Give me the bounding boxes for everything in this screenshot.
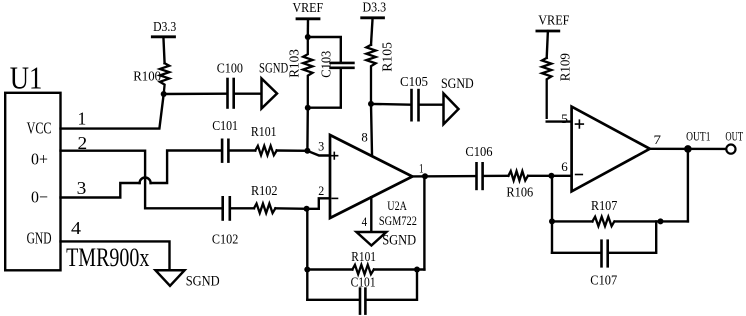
wire feedback vertical from U2A output [423,176,425,269]
capacitor C103 [331,62,354,65]
capacitor C100 [226,79,229,108]
wire output U2A [412,175,474,178]
wire pin8 U2A [371,104,372,154]
svg-text:R101: R101 [351,250,376,265]
wire C103 branch bottom [308,69,341,108]
node noninverting input U2A [304,148,310,154]
wire hop over [140,178,151,184]
svg-text:R101: R101 [251,125,277,140]
svg-text:C103: C103 [320,51,335,78]
wire C107 loop left [552,252,599,254]
resistor R100 [160,63,169,94]
resistor R101 [255,146,276,155]
wire R106 to pin6 U2B [528,175,571,177]
node junction below R100 [161,91,167,97]
wire feedback R107 row right [615,220,688,222]
svg-text:R102: R102 [251,184,278,199]
wire C102 to R102 [232,207,254,209]
svg-text:SGND: SGND [441,76,474,92]
svg-text:C102: C102 [212,233,238,248]
wire hop to step [151,151,221,184]
svg-text:U2A: U2A [387,198,407,213]
capacitor C106 [475,163,478,189]
minus sign U2B [576,174,583,176]
power flag VREF (left) [297,17,319,20]
wire C103 branch top [308,37,341,62]
svg-text:3: 3 [77,178,87,198]
wire node down to input node [306,108,309,151]
svg-text:2: 2 [78,133,88,153]
wire C101 feedback loop right [368,270,418,300]
wire pin1 U1 [61,94,164,129]
capacitor C107 [600,241,603,267]
svg-text:SGND: SGND [259,61,288,77]
svg-text:VREF: VREF [293,1,324,16]
svg-text:C101: C101 [351,276,376,291]
wire node to C105 [371,103,409,106]
svg-text:0+: 0+ [31,150,48,169]
node feedback2 right [658,218,664,224]
svg-text:2: 2 [318,183,324,198]
wire feedback R101 row right [374,268,424,270]
wire D3.3 to R105 [371,18,373,45]
wire VREF to R109 [547,31,548,58]
node feedback left [304,267,310,273]
chip U1 box [5,93,60,270]
svg-text:6: 6 [561,159,568,174]
resistor R107 [592,217,614,226]
resistor R102 [254,204,275,213]
svg-text:0−: 0− [31,188,48,207]
node feedback2 left [549,218,555,224]
ground SGND symbol under U2A [357,232,387,246]
svg-text:OUT1: OUT1 [686,129,710,144]
svg-text:D3.3: D3.3 [363,1,387,16]
svg-text:R106: R106 [506,186,533,201]
wire pin2 U1 [61,151,221,209]
svg-text:R100: R100 [133,69,161,84]
op-amp U2A [330,135,412,218]
op-amp U2B [572,107,650,192]
svg-text:TMR900x: TMR900x [66,243,149,272]
node inverting input U2A [304,206,310,212]
minus sign U2A [332,197,337,199]
resistor R106 [508,171,528,180]
wire VREF to node [307,19,310,37]
ground SGND symbol 2 [444,94,459,125]
power flag VREF (right) [537,30,559,33]
resistor R101 feedback [352,265,373,274]
svg-text:D3.3: D3.3 [153,20,176,35]
svg-text:8: 8 [361,130,367,145]
node inverting input U2B [548,173,554,179]
svg-text:4: 4 [71,218,81,238]
svg-text:VCC: VCC [27,119,52,138]
node bottom of R103 [305,105,311,111]
wire C101 feedback loop left [307,299,358,301]
capacitor C101 feedback [359,289,362,314]
svg-text:R107: R107 [591,199,617,214]
svg-text:OUT: OUT [725,129,743,144]
wire R102 to node [275,207,306,210]
wire C106 to R106 [485,175,509,177]
wire to pin5 U2B [547,120,572,122]
wire R101 to node [277,149,308,152]
svg-text:1: 1 [419,160,424,175]
wire C105 to SGND [421,103,444,105]
wire output U2B [650,148,727,150]
node pin8 junction [368,101,374,107]
node OUT1 [684,145,692,153]
wire pin4 U2A to ground [370,197,372,232]
capacitor C101 [221,140,224,162]
svg-text:R105: R105 [381,42,396,72]
wire node to pin3 U2A [307,151,329,156]
wire to C100 [164,92,226,95]
resistor R103 [303,37,312,108]
svg-text:SGND: SGND [382,232,416,248]
ground SGND symbol 1 [262,79,278,109]
wire node to pin2 U2A [307,198,330,209]
terminal OUT open circle [726,145,735,154]
svg-text:SGND: SGND [186,274,220,290]
svg-text:C106: C106 [465,145,492,160]
svg-text:SGM722: SGM722 [379,213,417,228]
power flag D3.3 (right) [362,16,384,19]
node feedback right [414,267,420,273]
resistor R109 [542,58,551,118]
svg-text:R109: R109 [558,53,573,81]
svg-text:4: 4 [362,214,368,229]
svg-text:3: 3 [318,138,324,153]
wire feedback vertical from U2A pin2 node [306,209,308,300]
plus sign U2A [331,152,338,159]
capacitor C105 [410,90,413,120]
wire C101 to R101 [231,149,256,151]
wire feedback vertical from U2B pin6 node [551,176,553,253]
wire C100 to SGND [236,92,262,94]
wire C107 loop right [610,221,656,252]
svg-text:C107: C107 [590,273,617,288]
resistor R105 [366,45,375,103]
svg-text:U1: U1 [10,60,43,96]
svg-text:C100: C100 [217,62,243,77]
wire feedback vertical from OUT1 [687,149,689,222]
svg-text:5: 5 [561,111,568,126]
svg-text:C101: C101 [212,119,238,134]
wire feedback R101 row left [307,268,352,270]
plus sign U2B [576,120,584,128]
node output U2A pin1 [422,173,428,179]
svg-text:VREF: VREF [538,13,569,28]
capacitor C102 [221,197,224,219]
svg-text:GND: GND [27,229,52,248]
svg-text:C105: C105 [400,75,428,90]
wire feedback R107 row left [552,220,592,222]
svg-text:7: 7 [654,132,662,147]
wire D3.3 to R100 [163,37,164,63]
ground SGND symbol under U1 [156,270,185,286]
wire pin3 U1 [61,183,140,198]
svg-text:R103: R103 [287,49,302,78]
svg-text:1: 1 [78,109,87,129]
wire pin4 U1 [61,241,170,270]
power flag D3.3 (left) [152,35,174,38]
node top of R103 [305,34,311,40]
